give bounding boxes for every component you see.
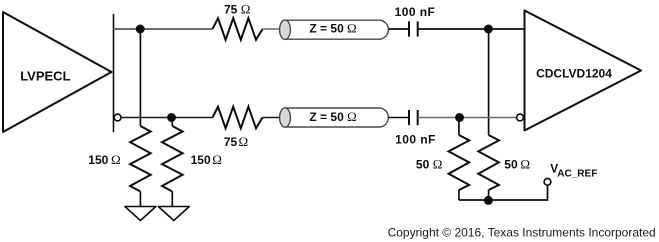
svg-text:Z = 50: Z = 50: [309, 22, 344, 36]
wire top resistor to tline: [263, 28, 286, 30]
output pin bar: [113, 14, 115, 132]
node bottom right junction: [455, 113, 464, 122]
svg-text:150: 150: [88, 153, 108, 167]
svg-text:50: 50: [504, 158, 518, 172]
node top right junction: [484, 25, 493, 34]
svg-text:Ω: Ω: [212, 152, 222, 167]
svg-text:AC_REF: AC_REF: [557, 168, 597, 179]
svg-text:Ω: Ω: [241, 2, 251, 17]
node bottom junction: [167, 113, 176, 122]
capacitor C 100nF top: [395, 5, 436, 37]
svg-text:150: 150: [191, 153, 211, 167]
node V AC_REF (open): [544, 178, 551, 185]
resistor 50 ohm left: [416, 135, 469, 200]
resistor 150 ohm right: [162, 126, 222, 207]
wire capacitor to CDCLVD input top: [418, 28, 524, 30]
svg-text:Ω: Ω: [433, 157, 443, 172]
node top output junction: [136, 25, 145, 34]
svg-text:CDCLVD1204: CDCLVD1204: [536, 67, 612, 81]
resistor 75 ohm top: [213, 2, 263, 40]
node CDCLVD inverting input (open): [517, 114, 524, 121]
svg-text:Ω: Ω: [520, 157, 530, 172]
transmission line Z=50 bottom: [280, 108, 389, 127]
svg-text:Copyright © 2016, Texas Instru: Copyright © 2016, Texas Instruments Inco…: [388, 225, 656, 239]
wire junction down to R 150 left: [139, 29, 141, 126]
label V AC_REF: [550, 162, 597, 180]
svg-text:50: 50: [416, 158, 430, 172]
wire junction down to R 50 left: [458, 118, 460, 136]
svg-text:75: 75: [224, 3, 238, 17]
wire tline to capacitor top: [388, 28, 409, 30]
capacitor C 100nF bottom: [395, 110, 436, 146]
wire AC ref rail: [459, 185, 548, 200]
wire junction down to R 150 right: [171, 118, 173, 127]
svg-text:100 nF: 100 nF: [395, 5, 436, 19]
ground right: [158, 207, 189, 221]
wire capacitor to CDCLVD input bottom: [418, 117, 517, 119]
buffer LVPECL: [3, 12, 112, 132]
wire tline to capacitor bottom: [388, 117, 409, 119]
svg-text:100 nF: 100 nF: [395, 132, 436, 146]
resistor 75 ohm bottom: [213, 107, 263, 149]
svg-text:Ω: Ω: [347, 21, 357, 36]
resistor 150 ohm left: [88, 126, 150, 207]
svg-text:LVPECL: LVPECL: [20, 69, 70, 84]
node bottom output (open): [114, 114, 121, 121]
wire bottom output to resistor: [121, 117, 212, 119]
ground left: [125, 207, 156, 221]
transmission line Z=50 top: [280, 20, 389, 39]
wire bottom resistor to tline: [263, 117, 286, 119]
svg-text:Ω: Ω: [347, 109, 357, 124]
svg-text:75: 75: [224, 135, 238, 149]
wire top output to resistor: [114, 28, 213, 30]
svg-text:Ω: Ω: [111, 152, 121, 167]
svg-text:Z = 50: Z = 50: [309, 110, 344, 124]
buffer CDCLVD1204: [525, 11, 642, 131]
svg-text:Ω: Ω: [239, 134, 249, 149]
wire junction down to R 50 right: [488, 29, 490, 135]
resistor 50 ohm right: [478, 135, 530, 200]
node AC ref rail junction: [484, 196, 493, 205]
